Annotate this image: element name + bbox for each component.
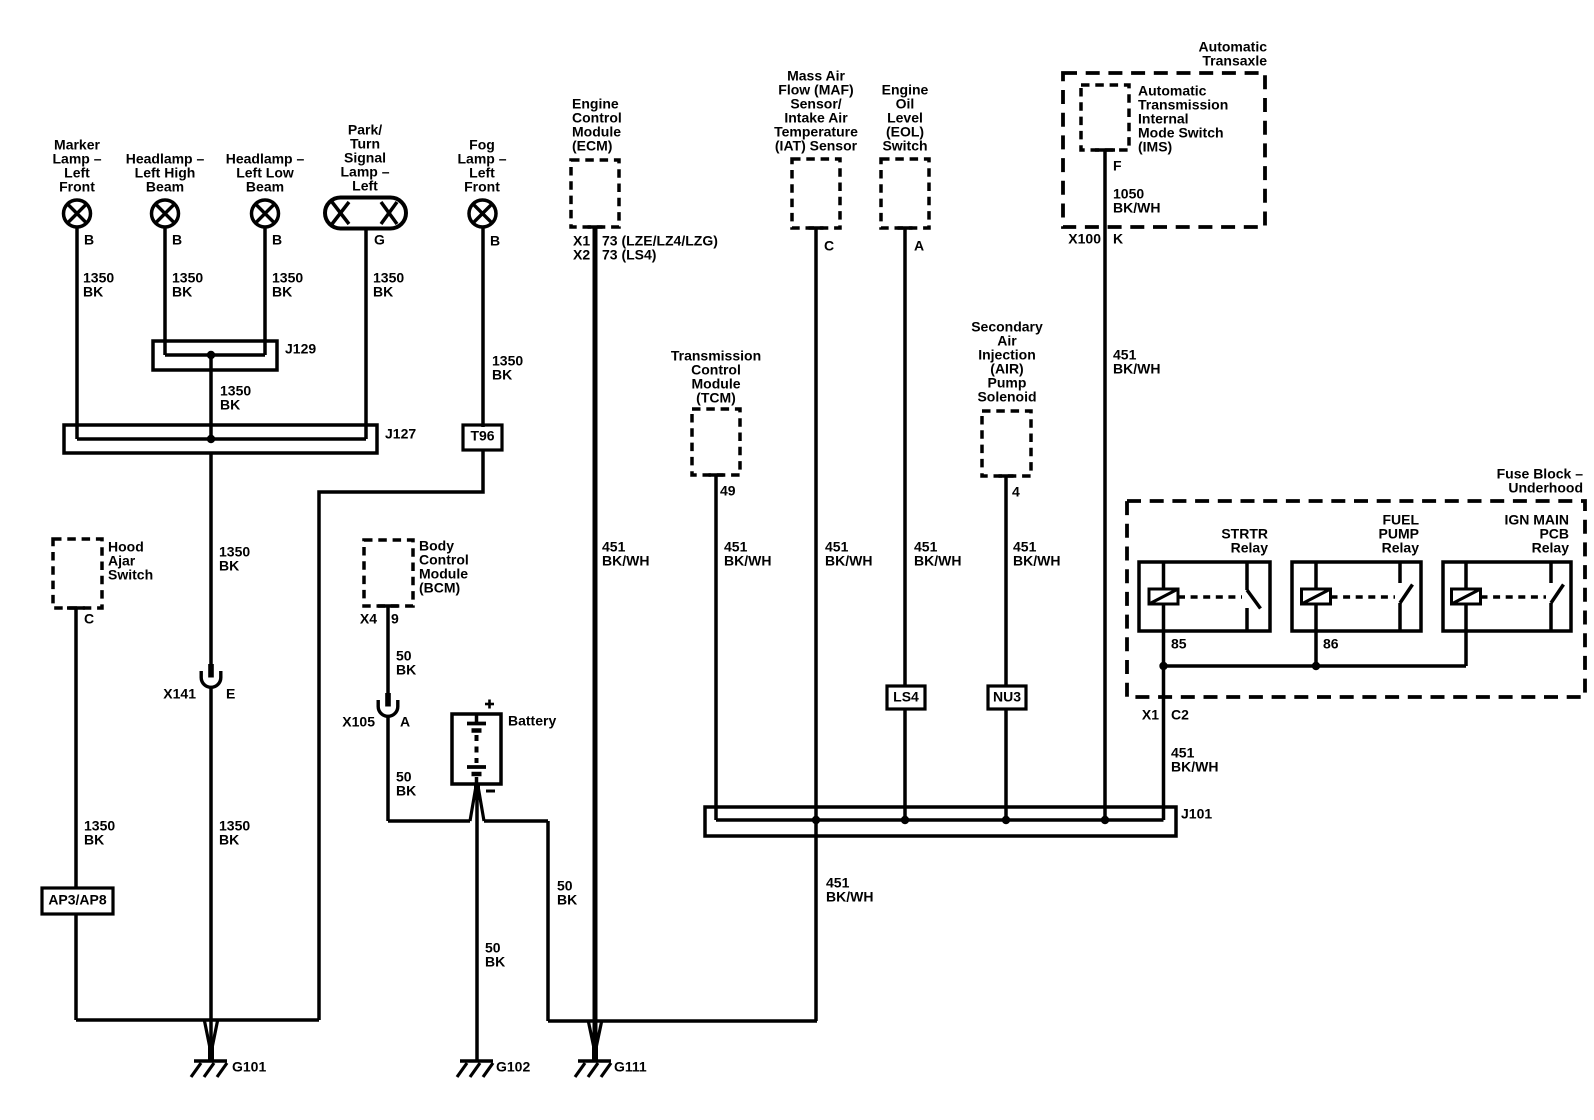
connector X105 (inline connector)	[378, 693, 398, 716]
svg-text:A: A	[914, 238, 924, 254]
junction dot J101 at EOL wire	[901, 816, 909, 824]
wire: 1350 BK from J127 to connector X141	[209, 453, 213, 664]
svg-text:Solenoid: Solenoid	[977, 389, 1036, 405]
svg-text:G111: G111	[614, 1059, 647, 1075]
option box LS4	[887, 686, 925, 709]
relay IGN MAIN PCB Relay actuating link (dashed)	[1481, 595, 1547, 598]
svg-text:C2: C2	[1171, 707, 1189, 723]
funnel junction at G101	[205, 1021, 218, 1062]
svg-text:Beam: Beam	[146, 179, 184, 195]
wire: 1350 BK from X141 to ground G101	[209, 688, 213, 1061]
wire: 50 BK from BCM X4-9 to connector X105	[386, 606, 390, 693]
svg-text:BK: BK	[83, 284, 103, 300]
svg-text:Switch: Switch	[108, 567, 153, 583]
svg-text:86: 86	[1323, 636, 1339, 652]
svg-text:BK: BK	[272, 284, 292, 300]
wire: 1350 BK from Marker Lamp pin B to splice J127	[75, 227, 79, 439]
component: Engine Oil Level EOL Switch (dashed box)	[881, 159, 929, 228]
svg-text:X2: X2	[573, 247, 590, 263]
splice J127 internal bus bar	[77, 437, 366, 441]
svg-text:Relay: Relay	[1382, 540, 1420, 556]
svg-text:J129: J129	[285, 341, 316, 357]
splice J101 internal bus bar	[716, 818, 1164, 822]
wire: 451 BK/WH from X100-K to splice J101	[1103, 227, 1107, 820]
svg-text:BK: BK	[84, 832, 104, 848]
splice J127 (forward lamp ground splice)	[64, 425, 377, 453]
ground G101	[191, 1061, 227, 1077]
junction dot J101 at MAF wire	[812, 816, 820, 824]
svg-text:Front: Front	[464, 179, 500, 195]
relay FUEL PUMP Relay switch contact	[1400, 562, 1413, 631]
wire: 50 BK battery to ground G102	[475, 795, 479, 1061]
terminal tab of EOL switch	[898, 226, 913, 230]
svg-text:BK: BK	[219, 832, 239, 848]
junction dot in J129	[207, 351, 215, 359]
svg-text:BK/WH: BK/WH	[826, 889, 873, 905]
terminal tab of Hood Ajar Switch	[67, 606, 85, 610]
svg-text:C: C	[84, 611, 94, 627]
component: Fuse Block - Underhood (large dashed box)	[1127, 501, 1585, 697]
svg-text:BK: BK	[220, 397, 240, 413]
connector X141 (inline connector)	[201, 664, 221, 687]
svg-text:X1: X1	[1142, 707, 1159, 723]
relay STRTR Relay actuating link (dashed)	[1178, 595, 1242, 598]
svg-text:(IMS): (IMS)	[1138, 139, 1172, 155]
battery positive terminal +	[485, 700, 494, 709]
svg-text:Beam: Beam	[246, 179, 284, 195]
svg-text:Front: Front	[59, 179, 95, 195]
svg-text:E: E	[226, 686, 235, 702]
funnel junction at G111	[589, 1022, 602, 1062]
svg-text:BK/WH: BK/WH	[914, 553, 961, 569]
svg-text:(TCM): (TCM)	[696, 390, 736, 406]
svg-text:BK: BK	[396, 662, 416, 678]
svg-text:X100: X100	[1068, 231, 1101, 247]
svg-text:G102: G102	[496, 1059, 530, 1075]
terminal tab of AIR pump solenoid	[999, 474, 1014, 478]
terminal tab of MAF sensor	[809, 226, 824, 230]
junction dot in J127	[207, 435, 215, 443]
svg-text:Relay: Relay	[1231, 540, 1269, 556]
wire: 451 BK/WH from NU3 box to splice J101	[1004, 709, 1008, 820]
funnel junction at battery negative	[470, 784, 484, 821]
battery internal cells	[467, 714, 486, 784]
svg-text:BK: BK	[172, 284, 192, 300]
relay STRTR Relay switch contact	[1247, 562, 1261, 631]
svg-text:X141: X141	[163, 686, 196, 702]
option box NU3	[988, 686, 1026, 709]
svg-text:B: B	[172, 232, 182, 248]
wire: 451 BK/WH from AIR solenoid pin 4 to NU3 option box	[1004, 476, 1008, 686]
svg-text:K: K	[1113, 231, 1123, 247]
lamp symbol: Park/Turn Signal Lamp - Left (dual filament)	[325, 198, 406, 229]
wire: relay ground bus (451 BK/WH)	[1164, 664, 1467, 668]
terminal tab of BCM	[378, 604, 398, 608]
wire: STRTR relay coil to relay ground bus and J101	[1162, 631, 1166, 820]
component: Automatic Transaxle (large dashed box)	[1063, 73, 1265, 227]
splice J129 internal bus bar	[165, 353, 265, 357]
ground G102	[457, 1061, 493, 1077]
svg-text:Left: Left	[352, 178, 378, 194]
svg-text:BK/WH: BK/WH	[825, 553, 872, 569]
svg-text:Transaxle: Transaxle	[1202, 53, 1267, 69]
terminal tab of ECM	[588, 225, 603, 229]
svg-text:B: B	[490, 233, 500, 249]
svg-text:BK/WH: BK/WH	[1171, 759, 1218, 775]
wire: 1050 BK/WH from IMS pin F to connector X100	[1103, 150, 1107, 227]
wire: 1350 BK from J129 to J127	[209, 355, 213, 439]
lamp symbol: Headlamp - Left High Beam	[152, 200, 179, 227]
svg-text:A: A	[400, 714, 410, 730]
junction dot at FUEL PUMP coil / bus	[1312, 662, 1320, 670]
lamp symbol: Headlamp - Left Low Beam	[252, 200, 279, 227]
svg-text:BK/WH: BK/WH	[724, 553, 771, 569]
svg-text:BK: BK	[485, 954, 505, 970]
svg-text:C: C	[824, 238, 834, 254]
wire: 50 BK from battery junction to ground G111	[546, 821, 550, 1021]
junction dot J101 at IMS wire	[1101, 816, 1109, 824]
lamp symbol: Fog Lamp - Left Front	[469, 200, 496, 227]
wire: 1350 BK from Park/Turn Signal Lamp pin G to splice J127	[364, 229, 368, 440]
component: Secondary Air Injection AIR Pump Solenoid (dashed box)	[982, 411, 1031, 476]
relay FUEL PUMP Relay coil	[1302, 562, 1331, 631]
wire: 451 BK/WH from EOL pin A to LS4 option box	[903, 228, 907, 686]
svg-text:BK/WH: BK/WH	[602, 553, 649, 569]
component: Transmission Control Module TCM (dashed box)	[692, 409, 740, 475]
component: Battery (box)	[452, 714, 501, 784]
component: Engine Control Module ECM (dashed box)	[571, 160, 619, 227]
svg-text:(IAT) Sensor: (IAT) Sensor	[775, 138, 858, 154]
svg-text:85: 85	[1171, 636, 1187, 652]
svg-text:G: G	[374, 232, 385, 248]
junction dot J101 at AIR wire	[1002, 816, 1010, 824]
wire: battery junction bus	[484, 819, 548, 823]
wire: 451 BK/WH from ECM ground pins to G111 (double circuit)	[593, 227, 598, 1061]
component: Automatic Transmission Internal Mode Switch IMS (dashed box)	[1081, 85, 1129, 150]
terminal tab of TCM	[709, 473, 724, 477]
svg-text:4: 4	[1012, 484, 1020, 500]
relay IGN MAIN PCB Relay switch contact	[1551, 562, 1564, 631]
relay IGN MAIN PCB Relay coil	[1452, 562, 1481, 631]
svg-text:BK: BK	[373, 284, 393, 300]
relay STRTR Relay coil	[1149, 562, 1178, 631]
wire: ground bus into G111	[548, 1019, 817, 1023]
svg-text:F: F	[1113, 158, 1122, 174]
relay FUEL PUMP Relay actuating link (dashed)	[1331, 595, 1396, 598]
wire: FUEL PUMP relay coil to relay ground bus	[1314, 631, 1318, 666]
ground G111	[575, 1061, 611, 1077]
svg-text:X4: X4	[360, 611, 377, 627]
wire: 1350 BK from Fog Lamp pin B to T96	[481, 227, 485, 427]
svg-text:9: 9	[391, 611, 399, 627]
svg-text:LS4: LS4	[893, 689, 919, 705]
battery negative terminal -	[486, 790, 495, 793]
component: Mass Air Flow MAF/IAT Sensor (dashed box)	[792, 159, 840, 228]
svg-text:BK: BK	[492, 367, 512, 383]
splice J129 (headlamp ground splice)	[153, 341, 277, 370]
svg-text:B: B	[272, 232, 282, 248]
wire: 451 BK/WH from LS4 box to splice J101	[903, 709, 907, 820]
component AP3/AP8 (inline connector box)	[42, 888, 113, 914]
svg-text:AP3/AP8: AP3/AP8	[48, 892, 107, 908]
svg-text:X105: X105	[342, 714, 375, 730]
svg-text:BK/WH: BK/WH	[1013, 553, 1060, 569]
svg-text:49: 49	[720, 483, 736, 499]
relay FUEL PUMP Relay (box)	[1292, 562, 1421, 631]
wire: 1350 BK from Headlamp Low Beam to splice J129	[263, 227, 267, 355]
svg-text:BK: BK	[219, 558, 239, 574]
svg-text:B: B	[84, 232, 94, 248]
svg-text:73 (LS4): 73 (LS4)	[602, 247, 656, 263]
svg-text:Underhood: Underhood	[1508, 480, 1583, 496]
wire: 451 BK/WH from TCM pin 49 to splice J101	[714, 475, 718, 820]
wire: IGN MAIN relay coil to relay ground bus	[1464, 631, 1468, 666]
svg-text:BK/WH: BK/WH	[1113, 361, 1160, 377]
svg-text:Relay: Relay	[1532, 540, 1570, 556]
wire: 451 BK/WH from MAF pin C through splice J101 to G111 bus	[814, 228, 818, 1021]
svg-text:J101: J101	[1181, 806, 1212, 822]
svg-text:BK: BK	[396, 783, 416, 799]
wire: 50 BK from X105 to battery negative junction	[386, 717, 390, 821]
wire: 1350 BK from T96 down and left to G101 bus	[319, 450, 483, 1020]
relay IGN MAIN PCB Relay (box)	[1443, 562, 1571, 631]
wire: 1350 BK from AP3/AP8 to ground G101	[74, 914, 78, 1020]
component: Hood Ajar Switch (dashed box)	[53, 539, 102, 608]
svg-text:(ECM): (ECM)	[572, 138, 612, 154]
svg-text:Switch: Switch	[882, 138, 927, 154]
svg-text:J127: J127	[385, 426, 416, 442]
wire: ground bus into G101	[76, 1018, 319, 1022]
splice J101 (powertrain ground splice)	[705, 807, 1176, 836]
svg-text:(BCM): (BCM)	[419, 580, 460, 596]
terminal tab of IMS	[1095, 148, 1115, 152]
component: Body Control Module BCM (dashed box)	[364, 540, 413, 606]
svg-text:BK: BK	[557, 892, 577, 908]
svg-text:T96: T96	[470, 428, 494, 444]
junction dot at STRTR coil / bus	[1159, 662, 1167, 670]
svg-text:Battery: Battery	[508, 713, 556, 729]
connector T96 (fog lamp inline)	[463, 425, 502, 450]
svg-text:NU3: NU3	[993, 689, 1021, 705]
wire: 1350 BK from Hood Ajar Switch pin C to AP3/AP8	[74, 608, 78, 888]
wire: 1350 BK from Headlamp High Beam to splice J129	[163, 227, 167, 355]
lamp symbol: Marker Lamp - Left Front	[64, 200, 91, 227]
svg-text:BK/WH: BK/WH	[1113, 200, 1160, 216]
svg-text:G101: G101	[232, 1059, 266, 1075]
relay STRTR Relay (box)	[1139, 562, 1270, 631]
